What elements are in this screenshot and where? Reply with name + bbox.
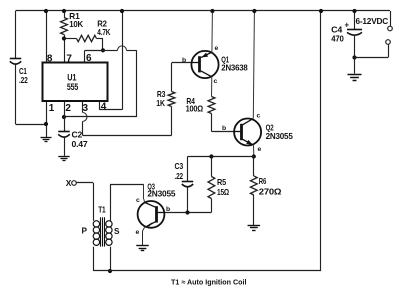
svg-text:+: +: [345, 21, 350, 30]
svg-text:b: b: [166, 206, 170, 213]
svg-text:6: 6: [86, 53, 92, 64]
svg-text:555: 555: [67, 81, 78, 92]
svg-text:3: 3: [83, 103, 89, 114]
svg-text:T1 ≈ Auto Ignition Coil: T1 ≈ Auto Ignition Coil: [171, 278, 247, 287]
svg-text:X: X: [66, 178, 72, 188]
svg-text:.22: .22: [19, 76, 28, 85]
svg-text:R6: R6: [259, 177, 267, 186]
svg-text:R2: R2: [97, 19, 107, 28]
svg-text:e: e: [136, 229, 140, 236]
svg-text:C1: C1: [19, 67, 27, 76]
svg-text:S: S: [114, 227, 120, 236]
svg-text:1: 1: [49, 103, 55, 114]
svg-text:270Ω: 270Ω: [259, 188, 282, 197]
svg-text:R5: R5: [217, 178, 227, 187]
svg-text:2N3055: 2N3055: [266, 132, 294, 141]
svg-text:2N3055: 2N3055: [147, 190, 176, 199]
svg-text:R3: R3: [157, 90, 166, 99]
svg-text:P: P: [82, 227, 88, 236]
svg-text:8: 8: [47, 53, 53, 64]
svg-text:15Ω: 15Ω: [217, 188, 230, 197]
svg-text:C3: C3: [175, 162, 184, 171]
svg-text:C2: C2: [72, 131, 83, 140]
svg-text:10K: 10K: [69, 20, 83, 29]
svg-text:2N3638: 2N3638: [221, 64, 248, 73]
svg-text:c: c: [257, 113, 261, 120]
svg-text:b: b: [182, 57, 186, 64]
svg-text:c: c: [214, 78, 218, 85]
svg-text:T1: T1: [98, 206, 106, 215]
svg-text:e: e: [215, 45, 219, 52]
svg-text:0.47: 0.47: [72, 140, 89, 149]
svg-text:c: c: [136, 197, 140, 204]
svg-text:7: 7: [66, 53, 72, 64]
svg-text:100Ω: 100Ω: [186, 105, 204, 114]
svg-text:b: b: [222, 125, 226, 132]
svg-text:.22: .22: [175, 172, 184, 181]
svg-text:1K: 1K: [156, 99, 165, 108]
svg-text:4: 4: [101, 102, 107, 113]
svg-text:4.7K: 4.7K: [97, 28, 110, 37]
svg-text:6-12VDC: 6-12VDC: [356, 17, 389, 26]
svg-text:2: 2: [65, 103, 71, 114]
svg-text:e: e: [258, 146, 262, 153]
svg-text:C4: C4: [331, 26, 343, 35]
svg-text:470: 470: [331, 34, 344, 43]
